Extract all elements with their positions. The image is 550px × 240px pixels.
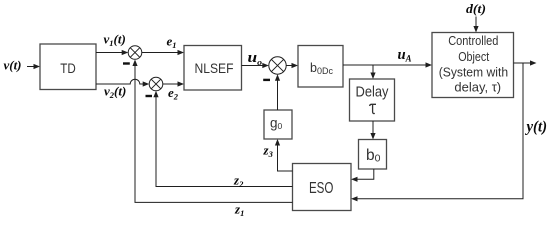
svg-text:z2: z2 [233, 172, 244, 189]
block g0 [264, 110, 292, 139]
wire g0 to S3 [275, 74, 280, 110]
wire uo NLSEF to S3 [242, 63, 269, 68]
svg-text:NLSEF: NLSEF [195, 60, 234, 76]
wire e2 S2 to NLSEF [163, 81, 184, 86]
wire Delay to b0 [370, 121, 375, 140]
svg-text:uA: uA [398, 47, 412, 64]
wire e1 S1 to NLSEF [142, 50, 184, 55]
wire z1 ESO to S1 [132, 60, 292, 203]
block ESO [293, 164, 352, 211]
block b0 [359, 140, 387, 170]
svg-text:z3: z3 [263, 143, 274, 160]
svg-text:uo: uo [248, 50, 263, 67]
wire v(t) input [27, 64, 40, 69]
wire S3 to b0Dc [286, 63, 298, 68]
minus sign at S1 [123, 62, 130, 64]
block Controlled Object [432, 33, 514, 98]
block TD [40, 44, 96, 90]
summing junction S2 [149, 77, 163, 91]
wire output arrow [514, 60, 537, 65]
block b0Dc [298, 46, 343, 88]
svg-text:d(t): d(t) [466, 1, 486, 16]
block Delay tau [350, 79, 395, 121]
svg-text:e1: e1 [167, 33, 177, 50]
svg-text:(System with: (System with [439, 66, 508, 80]
wire uA b0Dc to Controlled Object [343, 62, 432, 67]
wire v1 TD to S1 [96, 50, 128, 55]
wire v2 TD to S2 with hop [96, 79, 149, 86]
summing junction S3 [269, 57, 286, 74]
wire z3 ESO to g0 [275, 139, 293, 171]
svg-text:v1(t): v1(t) [104, 31, 126, 48]
wire y(t) feedback to ESO [351, 63, 523, 201]
minus sign at S3 [263, 79, 270, 81]
svg-text:v(t): v(t) [4, 57, 22, 72]
minus sign at S2 [146, 95, 153, 97]
svg-text:e2: e2 [168, 85, 179, 102]
wire d(t) into Controlled Object [473, 17, 478, 33]
wire b0 to ESO [351, 169, 374, 182]
svg-text:Controlled: Controlled [448, 34, 498, 48]
svg-text:delay, τ): delay, τ) [454, 81, 501, 95]
svg-text:ESO: ESO [309, 180, 334, 197]
svg-text:v2(t): v2(t) [104, 83, 126, 100]
svg-text:y(t): y(t) [525, 118, 547, 135]
svg-text:Object: Object [458, 50, 489, 64]
svg-text:z1: z1 [234, 201, 244, 218]
svg-text:TD: TD [60, 61, 76, 76]
block NLSEF [184, 46, 242, 91]
wire z2 ESO to S2 [153, 91, 292, 187]
wire branch b0Dc to Delay [370, 65, 375, 79]
summing junction S1 [128, 46, 142, 60]
svg-text:Delay: Delay [356, 83, 389, 100]
